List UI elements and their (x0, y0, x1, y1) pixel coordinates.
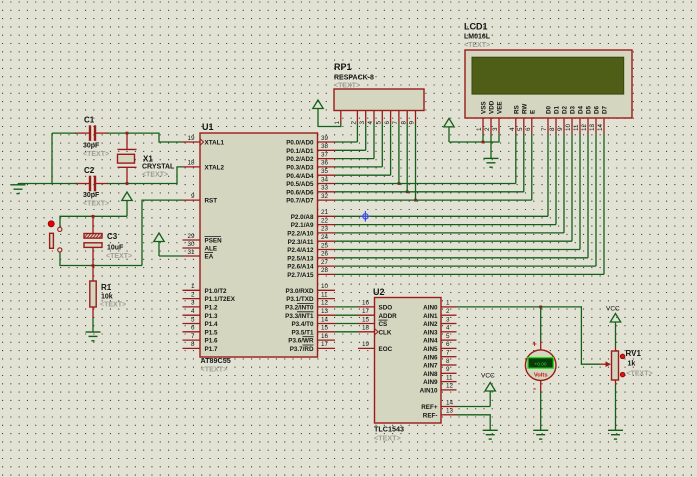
svg-text:2: 2 (446, 308, 450, 315)
svg-text:4: 4 (446, 325, 450, 332)
svg-text:7: 7 (446, 350, 450, 357)
U1 pin 34 P0.5/AD5 (286, 176, 335, 188)
U1 pin 37 P0.2/AD2 (286, 151, 335, 163)
svg-text:R1: R1 (101, 283, 112, 292)
svg-text:14: 14 (321, 316, 329, 323)
power VCC reset arrow (122, 192, 132, 201)
svg-text:TLC1543: TLC1543 (374, 425, 404, 434)
svg-text:13: 13 (589, 123, 596, 131)
svg-text:16: 16 (321, 333, 329, 340)
svg-text:8: 8 (191, 341, 195, 348)
wire C1 row to XTAL1 (107, 133, 183, 142)
U1 pin 22 P2.1/A9 (291, 217, 335, 229)
wire LCD VDD to ground (490, 134, 492, 158)
svg-text:+0.00: +0.00 (534, 362, 546, 368)
wire LCD D4 drop (579, 134, 581, 250)
wire RP1 pin7 drop (398, 123, 400, 184)
LCD1 pin 8 D1 (549, 105, 560, 134)
svg-text:3: 3 (446, 316, 450, 323)
LCD1 pin 9 D2 (557, 105, 568, 134)
wire LCD D1 drop (555, 134, 557, 225)
LCD1 screen (472, 57, 624, 94)
LCD1 pin 1 VSS (476, 101, 487, 134)
svg-text:30: 30 (187, 241, 195, 248)
svg-text:<TEXT>: <TEXT> (83, 151, 109, 158)
U1 pin 21 P2.0/A8 (291, 209, 335, 221)
wire P2.0 to LCD D0 (335, 215, 548, 217)
svg-text:12: 12 (321, 300, 329, 307)
U2 pin 19 EOC (358, 341, 393, 353)
capacitor C1 (75, 125, 108, 141)
svg-text:<TEXT>: <TEXT> (334, 83, 360, 90)
wire P0.2 (335, 158, 374, 160)
svg-text:EA: EA (205, 254, 214, 261)
svg-text:C2: C2 (84, 166, 95, 175)
svg-text:<TEXT>: <TEXT> (374, 434, 401, 443)
svg-text:C3: C3 (107, 232, 118, 241)
svg-text:D0: D0 (546, 105, 553, 114)
ground crystal (17, 184, 19, 185)
wire P3.3 to U2 (335, 314, 358, 316)
wire C2 row to XTAL2 (107, 167, 183, 184)
svg-text:4: 4 (367, 121, 374, 125)
node crystal top (126, 132, 129, 135)
svg-text:RST: RST (205, 198, 218, 205)
svg-text:<TEXT>: <TEXT> (100, 302, 126, 309)
U1 pin 23 P2.2/A10 (287, 226, 335, 238)
svg-text:13: 13 (446, 408, 454, 415)
svg-text:30pF: 30pF (83, 143, 100, 150)
wire P0.4 (335, 174, 391, 176)
svg-text:<TEXT>: <TEXT> (83, 201, 109, 208)
wire LCD D7 drop (603, 134, 605, 274)
U1 pin 14 P3.4/T0 (291, 316, 335, 328)
svg-text:D7: D7 (602, 105, 609, 114)
svg-text:D6: D6 (594, 105, 601, 114)
wire RP1 pin9 drop (415, 123, 417, 200)
svg-text:6: 6 (191, 325, 195, 332)
svg-text:22: 22 (321, 217, 329, 224)
svg-text:28: 28 (321, 267, 329, 274)
svg-text:P3.0/RXD: P3.0/RXD (286, 288, 314, 295)
wire P2.7 to LCD D7 (335, 273, 604, 275)
svg-text:3: 3 (359, 121, 366, 125)
svg-text:37: 37 (321, 151, 329, 158)
svg-text:7: 7 (191, 333, 195, 340)
U1 pin 7 P1.6 (183, 333, 218, 345)
potentiometer RV1 (612, 347, 625, 385)
LCD1 pin 4 RS (509, 105, 520, 134)
wire P0.1 (335, 149, 366, 151)
wire P0.3 (335, 166, 382, 168)
svg-text:24: 24 (321, 234, 329, 241)
svg-text:D4: D4 (578, 105, 585, 114)
U2 pin 14 REF+ (421, 399, 456, 411)
svg-text:7: 7 (541, 127, 548, 131)
svg-text:18: 18 (362, 325, 370, 332)
wire RP1 pin5 drop (381, 123, 383, 167)
U1 pin 18 XTAL2 (183, 160, 225, 172)
svg-text:E: E (529, 110, 536, 114)
crystal X1 (118, 133, 137, 183)
wire P2.3 to LCD D3 (335, 240, 572, 242)
wire P2.6 to LCD D6 (335, 265, 596, 267)
wire P3.2 to U2 (335, 306, 358, 308)
wire LCD D5 drop (587, 134, 589, 258)
power VCC RV1 arrow (610, 314, 620, 323)
svg-text:18: 18 (187, 160, 195, 167)
U1 pin 8 P1.7 (183, 341, 218, 353)
svg-text:P2.5/A13: P2.5/A13 (287, 255, 314, 262)
U1 pin 17 P3.7/RD (290, 341, 335, 353)
svg-text:9: 9 (557, 127, 564, 131)
svg-text:1: 1 (446, 300, 450, 307)
svg-text:Volts: Volts (534, 373, 548, 379)
svg-text:P3.2/INT0: P3.2/INT0 (285, 305, 314, 312)
wire reset top row (60, 216, 127, 227)
node RP1-P0.6 (406, 190, 409, 193)
wire P2.2 to LCD D2 (335, 232, 564, 234)
svg-text:38: 38 (321, 143, 329, 150)
svg-text:VCC: VCC (606, 306, 620, 313)
svg-text:RESPACK-8: RESPACK-8 (334, 75, 374, 82)
svg-text:12: 12 (581, 123, 588, 131)
svg-text:25: 25 (321, 242, 329, 249)
LCD1 pin 2 VDD (484, 100, 495, 134)
wire LCD RS drop (515, 134, 517, 184)
svg-text:5: 5 (191, 316, 195, 323)
U2 pin 12 AIN10 (420, 383, 457, 395)
svg-text:AIN4: AIN4 (423, 338, 438, 345)
svg-text:VSS: VSS (481, 101, 488, 114)
svg-text:P0.5/AD5: P0.5/AD5 (286, 181, 314, 188)
wire LCD D0 drop (547, 134, 549, 216)
svg-text:17: 17 (362, 308, 370, 315)
svg-text:RW: RW (521, 104, 528, 114)
U1 pin 4 P1.3 (183, 308, 218, 320)
svg-text:6: 6 (525, 127, 532, 131)
svg-text:14: 14 (446, 399, 454, 406)
svg-text:<TEXT>: <TEXT> (201, 365, 228, 374)
U1 pin 27 P2.6/A14 (287, 259, 335, 271)
svg-text:36: 36 (321, 160, 329, 167)
svg-text:5: 5 (517, 127, 524, 131)
U1 pin 24 P2.3/A11 (288, 234, 335, 246)
svg-text:33: 33 (321, 185, 329, 192)
U1 pin 16 P3.6/WR (288, 333, 335, 345)
RP1 pin 6 (384, 111, 391, 125)
U2 pin 15 CS (358, 316, 388, 328)
svg-text:P1.5: P1.5 (205, 329, 218, 336)
U1 pin 30 ALE (183, 241, 218, 253)
node RP1-P0.7 (414, 199, 417, 202)
svg-text:D2: D2 (562, 105, 569, 114)
power VCC EA arrow (154, 233, 164, 242)
svg-text:U1: U1 (202, 122, 214, 132)
svg-text:CLK: CLK (379, 329, 392, 336)
svg-text:8: 8 (549, 127, 556, 131)
U1 pin 25 P2.4/A12 (287, 242, 335, 254)
svg-text:P0.2/AD2: P0.2/AD2 (286, 156, 314, 163)
origin marker (360, 211, 371, 222)
svg-text:35: 35 (321, 168, 329, 175)
svg-text:EOC: EOC (379, 346, 393, 353)
svg-text:9: 9 (409, 121, 416, 125)
svg-text:XTAL1: XTAL1 (205, 140, 225, 147)
U2 pin 9 AIN8 (423, 366, 456, 378)
svg-text:D5: D5 (586, 105, 593, 114)
svg-text:1: 1 (191, 283, 195, 290)
wire EA (159, 255, 183, 257)
svg-text:RS: RS (513, 105, 520, 114)
U2 pin 17 ADDR (358, 308, 397, 320)
ground LCD (484, 157, 499, 159)
RP1 pin 8 (400, 111, 407, 125)
svg-text:ALE: ALE (205, 246, 218, 253)
capacitor C2 (75, 176, 108, 192)
U1 pin 15 P3.5/T1 (291, 325, 335, 337)
wire REF+ to VCC (457, 406, 491, 408)
svg-text:P3.5/T1: P3.5/T1 (291, 329, 314, 336)
LCD1 pin 7 D0 (541, 105, 552, 134)
svg-text:27: 27 (321, 259, 329, 266)
wire P0.6 to LCD (335, 191, 524, 193)
wire P2.4 to LCD D4 (335, 249, 580, 251)
U1 pin 38 P0.1/AD1 (286, 143, 335, 155)
U2 pin 16 SDO (358, 300, 392, 312)
svg-text:P0.4/AD4: P0.4/AD4 (286, 173, 314, 180)
U1 pin 32 P0.7/AD7 (286, 193, 335, 205)
U1 pin 33 P0.6/AD6 (286, 185, 335, 197)
wire P0.7 to LCD (335, 199, 532, 201)
LCD1 pin 11 D4 (573, 105, 584, 134)
svg-text:8: 8 (400, 121, 407, 125)
svg-text:39: 39 (321, 135, 329, 142)
svg-text:XTAL2: XTAL2 (205, 165, 225, 172)
svg-text:C1: C1 (84, 116, 95, 125)
wire P0.5 to LCD (335, 183, 516, 185)
wire P3.5 to U2 (335, 331, 358, 333)
svg-text:P1.3: P1.3 (205, 313, 218, 320)
svg-text:P1.7: P1.7 (205, 346, 218, 353)
LCD1 pin 14 D7 (597, 105, 608, 134)
svg-text:P2.4/A12: P2.4/A12 (287, 247, 314, 254)
svg-text:P3.7/RD: P3.7/RD (290, 346, 314, 353)
svg-text:2: 2 (351, 121, 358, 125)
wire P0.0 (335, 141, 357, 143)
wire LCD pin1 drop (482, 134, 484, 142)
svg-text:2: 2 (191, 291, 195, 298)
wire RP1 pin2 drop (356, 123, 358, 142)
U2 pin 3 AIN2 (423, 316, 456, 328)
U2 pin 6 AIN5 (423, 341, 456, 353)
U2 pin 18 CLK (358, 325, 392, 337)
svg-text:4: 4 (191, 308, 195, 315)
wire RV1 to ground (615, 385, 617, 430)
svg-text:ADDR: ADDR (379, 313, 398, 320)
ground REF- (483, 429, 498, 431)
wire left vertical C1-C2 (51, 133, 53, 183)
svg-text:1k: 1k (628, 361, 636, 368)
svg-text:3: 3 (492, 127, 499, 131)
U2 pin 7 AIN6 (423, 350, 456, 362)
LCD1 pin 3 VEE (492, 101, 503, 134)
svg-text:CRYSTAL: CRYSTAL (142, 164, 175, 171)
svg-text:+: + (532, 340, 537, 349)
svg-text:AIN5: AIN5 (423, 346, 438, 353)
U1 pin 31 EA (183, 249, 214, 261)
RP1 pin 4 (367, 111, 374, 125)
wire button bottom (60, 252, 142, 265)
wire LCD D2 drop (563, 134, 565, 233)
wire RP1 pin6 drop (390, 123, 392, 175)
svg-text:AIN9: AIN9 (423, 379, 438, 386)
U2 pin 1 AIN0 (423, 300, 456, 312)
LCD1 pin 13 D6 (589, 105, 600, 134)
U1 pin 12 P3.2/INT0 (285, 300, 335, 312)
U1 pin 10 P3.0/RXD (286, 283, 336, 295)
U1 pin 29 PSEN (183, 233, 223, 245)
svg-text:P2.7/A15: P2.7/A15 (287, 272, 314, 279)
svg-text:P3.1/TXD: P3.1/TXD (286, 296, 314, 303)
svg-text:P1.4: P1.4 (205, 321, 218, 328)
svg-text:P0.1/AD1: P0.1/AD1 (286, 148, 314, 155)
U1 pin 39 P0.0/AD0 (286, 135, 335, 147)
wire C1 left (52, 132, 77, 134)
RP1 pin 2 (351, 111, 358, 125)
U2 pin 8 AIN7 (423, 358, 456, 370)
U2 pin 13 REF- (423, 408, 457, 420)
U1 pin 19 XTAL1 (183, 135, 225, 147)
LCD1 pin 5 RW (517, 104, 528, 134)
RP1 pin 5 (376, 111, 383, 125)
U2 pin 2 AIN1 (423, 308, 456, 320)
svg-text:23: 23 (321, 226, 329, 233)
svg-text:6: 6 (384, 121, 391, 125)
svg-text:AIN8: AIN8 (423, 371, 438, 378)
svg-text:11: 11 (446, 374, 453, 381)
svg-text:13: 13 (321, 308, 329, 315)
svg-text:P0.0/AD0: P0.0/AD0 (286, 140, 314, 147)
ground RV1 (608, 429, 623, 431)
U1 pin 36 P0.3/AD3 (286, 160, 335, 172)
svg-text:16: 16 (362, 300, 370, 307)
svg-text:10: 10 (321, 283, 329, 290)
node LCD pin1 (482, 141, 485, 144)
svg-text:10k: 10k (101, 294, 113, 301)
svg-text:VCC: VCC (481, 373, 495, 380)
svg-text:30pF: 30pF (83, 192, 100, 199)
power VCC RP1 arrow (313, 100, 323, 109)
power VCC LCD arrow (444, 118, 454, 127)
wire REF- to ground (457, 415, 491, 431)
svg-text:P0.7/AD7: P0.7/AD7 (286, 198, 314, 205)
svg-text:AIN1: AIN1 (423, 313, 438, 320)
svg-text:11: 11 (573, 124, 580, 131)
svg-text:17: 17 (321, 341, 329, 348)
svg-text:19: 19 (362, 341, 370, 348)
svg-text:P2.1/A9: P2.1/A9 (291, 222, 314, 229)
svg-text:8: 8 (446, 358, 450, 365)
svg-text:1: 1 (476, 127, 483, 131)
U1 pin 13 P3.3/INT1 (285, 308, 335, 320)
svg-text:P3.6/WR: P3.6/WR (288, 338, 314, 345)
svg-text:P1.2: P1.2 (205, 305, 218, 312)
svg-text:REF-: REF- (423, 412, 438, 419)
wire meter top (540, 307, 542, 341)
svg-text:P0.3/AD3: P0.3/AD3 (286, 165, 314, 172)
U2 pin 5 AIN4 (423, 333, 456, 345)
svg-text:<TEXT>: <TEXT> (142, 172, 168, 179)
LCD1 pin 6 E (525, 110, 536, 134)
U1 pin 5 P1.4 (183, 316, 218, 328)
U1 pin 28 P2.7/A15 (287, 267, 335, 279)
U1 pin 9 RST (183, 193, 218, 205)
wire P2.1 to LCD D1 (335, 224, 556, 226)
node C3 bottom (92, 264, 95, 267)
wire P2.5 to LCD D5 (335, 257, 588, 259)
ground voltmeter (533, 429, 548, 431)
svg-text:P1.0/T2: P1.0/T2 (205, 288, 228, 295)
wire LCD RW drop (523, 134, 525, 192)
svg-text:2: 2 (484, 127, 491, 131)
wire LCD VSS-VEE row (449, 134, 499, 142)
wire to ground (18, 183, 52, 185)
svg-text:<TEXT>: <TEXT> (464, 42, 490, 49)
svg-text:4: 4 (509, 127, 516, 131)
ground R1 (86, 331, 101, 333)
svg-text:AIN7: AIN7 (423, 363, 438, 370)
node RP1-P0.5 (398, 182, 401, 185)
U1 pin 6 P1.5 (183, 325, 218, 337)
svg-text:LM016L: LM016L (464, 34, 491, 41)
U1 pin 11 P3.1/TXD (286, 291, 335, 303)
wire RP1 pin4 drop (373, 123, 375, 159)
svg-text:P3.4/T0: P3.4/T0 (291, 321, 314, 328)
resistor R1 (90, 266, 96, 318)
svg-text:CS: CS (379, 321, 388, 328)
svg-text:AIN10: AIN10 (420, 388, 438, 395)
svg-text:VEE: VEE (497, 101, 504, 114)
svg-text:P3.3/INT1: P3.3/INT1 (285, 313, 314, 320)
svg-text:AIN3: AIN3 (423, 329, 438, 336)
U1 pin 35 P0.4/AD4 (286, 168, 335, 180)
capacitor C3 (84, 217, 103, 264)
svg-text:32: 32 (321, 193, 329, 200)
wire meter bottom (540, 380, 542, 392)
svg-text:9: 9 (446, 366, 450, 373)
svg-text:P2.2/A10: P2.2/A10 (287, 231, 314, 238)
wire R1 to ground (92, 318, 94, 333)
svg-text:AIN0: AIN0 (423, 305, 438, 312)
voltmeter body (525, 350, 556, 381)
wire C2 left (52, 183, 77, 185)
U2 pin 11 AIN9 (423, 374, 456, 386)
svg-text:12: 12 (446, 383, 454, 390)
ADC U2 body (375, 298, 442, 424)
svg-text:11: 11 (321, 291, 328, 298)
wire RST net (142, 200, 183, 265)
svg-text:1: 1 (334, 121, 341, 125)
RP1 pin 7 (392, 111, 399, 125)
svg-text:15: 15 (362, 316, 370, 323)
svg-text:5: 5 (376, 121, 383, 125)
power VCC U2 arrow (485, 383, 495, 392)
U1 pin 1 P1.0/T2 (183, 283, 228, 295)
svg-text:RP1: RP1 (334, 62, 352, 72)
svg-text:14: 14 (597, 123, 604, 131)
node meter tap (539, 306, 542, 309)
